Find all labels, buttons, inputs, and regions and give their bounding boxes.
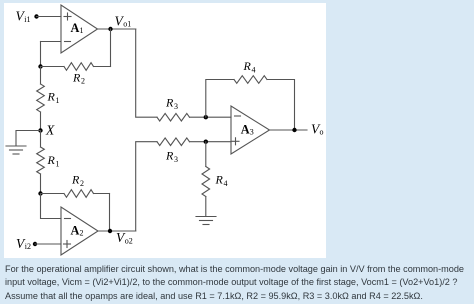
label X: [45, 122, 55, 137]
svg-text:1: 1: [56, 160, 60, 169]
wire R3 lower to A3 non-inverting input: [190, 141, 232, 143]
svg-text:4: 4: [252, 66, 256, 75]
svg-text:R: R: [72, 71, 81, 85]
svg-text:R: R: [243, 59, 252, 73]
node Vo2: [108, 229, 112, 233]
label R1 (upper): [47, 90, 60, 106]
svg-text:1: 1: [80, 26, 84, 35]
svg-text:3: 3: [174, 102, 178, 111]
wire A2 output to Vo2 node and right: [98, 230, 136, 232]
wire Vi1 to A1 + input: [37, 16, 62, 18]
wire R4 to ground: [205, 197, 207, 217]
svg-text:o1: o1: [123, 20, 131, 29]
svg-text:1: 1: [56, 96, 60, 105]
svg-text:2: 2: [80, 179, 84, 188]
op-amp A3: [231, 106, 270, 154]
label R3 (upper): [165, 96, 178, 112]
svg-text:o2: o2: [125, 236, 133, 245]
node A2 feedback junction: [38, 191, 42, 195]
svg-text:R: R: [215, 173, 224, 187]
label R4 (vertical): [215, 173, 228, 189]
wire riser down to Vo2 node: [109, 194, 111, 232]
label R1 (lower): [47, 153, 60, 169]
resistor R2 (lower): [64, 190, 94, 198]
label Vo2: [116, 230, 133, 245]
wire feedback riser up from inverting node: [206, 80, 234, 118]
resistor R1 (upper): [37, 84, 45, 112]
svg-text:3: 3: [174, 155, 178, 164]
node Vi2: [33, 242, 37, 246]
wire X to ground: [16, 131, 41, 146]
node Vo1: [108, 27, 112, 31]
node A3 inverting junction: [204, 115, 208, 119]
label Vo: [311, 122, 324, 137]
svg-text:R: R: [47, 153, 56, 167]
resistor R4 (top): [234, 76, 267, 84]
resistor R1 (lower): [37, 147, 45, 174]
svg-text:3: 3: [250, 128, 254, 137]
svg-text:A: A: [241, 123, 250, 137]
resistor R2 (upper): [64, 63, 94, 71]
svg-text:R: R: [47, 90, 56, 104]
node Vi1: [34, 14, 38, 18]
svg-text:R: R: [165, 96, 174, 110]
op-amp A2: [61, 207, 98, 255]
label R2 (upper): [72, 71, 85, 86]
wire R1 lower to A2 feedback node: [40, 174, 42, 194]
svg-text:o: o: [320, 128, 324, 137]
svg-text:2: 2: [80, 229, 84, 238]
label Vi1: [16, 9, 31, 24]
op-amp A1: [61, 5, 98, 53]
label R4 (top): [243, 59, 256, 75]
svg-text:X: X: [45, 122, 55, 137]
svg-text:i1: i1: [24, 15, 30, 24]
node A3 non-inverting junction: [204, 140, 208, 144]
wire R3 upper to A3 inverting input: [190, 116, 232, 118]
node A1 feedback junction: [38, 64, 42, 68]
ground (right): [196, 217, 216, 225]
svg-text:A: A: [71, 21, 80, 35]
resistor R3 (lower): [157, 138, 190, 146]
wire Vi2 to A2 + input: [35, 243, 61, 245]
wire Vo1 branch down to upper R3 row: [136, 29, 157, 117]
wire R1 upper to node X: [40, 112, 42, 131]
svg-text:A: A: [71, 224, 80, 238]
wire node down to A2 inverting input: [41, 194, 62, 219]
svg-text:R: R: [71, 173, 80, 187]
ground (left): [6, 146, 26, 154]
wire X down to R1 lower: [40, 131, 42, 148]
node X: [38, 128, 42, 132]
wire down to feedback node: [40, 42, 42, 67]
label Vi2: [16, 236, 31, 251]
label R3 (lower): [165, 149, 178, 165]
svg-text:R: R: [165, 149, 174, 163]
wire R2 lower to riser: [94, 193, 110, 195]
node A3 output junction: [292, 128, 296, 132]
wire node down to R1 upper: [40, 67, 42, 85]
wire R4 top to output riser: [267, 80, 295, 131]
wire A1 output to Vo1 node and right: [98, 28, 136, 30]
resistor R4 (vertical): [202, 167, 210, 197]
wire A1 inverting input left: [41, 41, 62, 43]
label R2 (lower): [71, 173, 84, 189]
wire node to R2 lower: [41, 193, 65, 195]
label Vo1: [115, 14, 132, 29]
resistor R3 (upper): [157, 113, 190, 121]
wire non-inverting node down to R4: [205, 142, 207, 167]
wire node to R2: [41, 66, 65, 68]
svg-text:2: 2: [81, 77, 85, 86]
wire Vo2 branch up to lower R3 row: [136, 142, 157, 231]
wire R2 to riser: [94, 66, 111, 68]
wire riser up to Vo1 node: [110, 29, 112, 67]
wire A3 output to Vo: [270, 129, 308, 131]
svg-text:4: 4: [224, 179, 228, 188]
svg-text:i2: i2: [25, 242, 31, 251]
